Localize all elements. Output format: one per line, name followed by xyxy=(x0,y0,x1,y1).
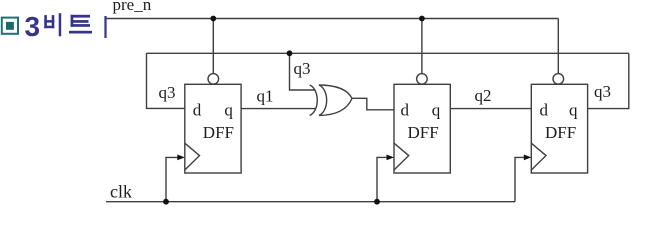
wire pre_n horizontal xyxy=(106,18,558,20)
dff U2 clock triangle xyxy=(394,143,409,170)
junction dot clk / U2 branch xyxy=(374,199,380,205)
svg-text:clk: clk xyxy=(110,182,132,202)
wire q3 left leg into U1 d input xyxy=(147,53,185,108)
text cursor bar xyxy=(104,16,106,38)
wire clk branch up to U1 clock xyxy=(166,157,179,201)
dff U2 preset bubble xyxy=(417,74,428,85)
svg-text:d: d xyxy=(401,100,410,119)
svg-text:q3: q3 xyxy=(294,59,311,78)
wire clk right leg up to U3 clock xyxy=(515,157,525,201)
svg-text:pre_n: pre_n xyxy=(113,0,152,14)
title hangul TEU xyxy=(69,15,92,34)
svg-text:q: q xyxy=(569,100,578,119)
junction dot q3 / XOR branch xyxy=(287,50,293,56)
wire q3 branch down to XOR upper input xyxy=(290,53,316,90)
arrowhead clk into U3 xyxy=(524,155,532,161)
svg-text:q1: q1 xyxy=(257,86,274,105)
svg-text:d: d xyxy=(540,100,549,119)
dff U1 clock triangle xyxy=(185,143,200,170)
wire pre_n drop to U1 preset bubble xyxy=(212,19,214,74)
svg-text:d: d xyxy=(193,100,202,119)
svg-text:3: 3 xyxy=(25,11,41,42)
arrowhead clk into U2 xyxy=(387,155,395,161)
title icon bullet square xyxy=(2,18,18,34)
wire q2: U2 q output to U3 d input xyxy=(450,108,531,110)
junction dot pre_n / U2 preset xyxy=(419,16,425,22)
dff U3 box xyxy=(531,84,587,173)
junction dot pre_n / U1 preset xyxy=(210,16,216,22)
wire pre_n drop to U2 preset bubble xyxy=(421,19,423,74)
wire q1: U1 q output to XOR lower input xyxy=(241,108,315,110)
xor gate G1 body xyxy=(319,85,352,115)
svg-text:q2: q2 xyxy=(475,86,492,105)
wire clk horizontal xyxy=(106,201,515,203)
wire pre_n right drop to U3 preset bubble xyxy=(557,19,559,74)
xor gate G1 input arc xyxy=(310,85,318,116)
wire q3 feedback bus horizontal xyxy=(147,52,629,54)
wire XOR output to U2 d input xyxy=(352,98,394,110)
svg-text:q: q xyxy=(224,100,233,119)
junction dot clk / U1 branch xyxy=(163,199,169,205)
dff U2 box xyxy=(394,84,450,173)
dff U3 preset bubble xyxy=(553,74,564,85)
wire clk branch up to U2 clock xyxy=(377,157,388,201)
svg-text:q: q xyxy=(432,100,441,119)
wire q3 right leg from U3 q output xyxy=(588,53,629,108)
dff U1 box xyxy=(185,84,241,173)
svg-text:DFF: DFF xyxy=(545,123,576,142)
arrowhead clk into U1 xyxy=(177,155,185,161)
dff U1 preset bubble xyxy=(208,74,219,85)
svg-text:q3: q3 xyxy=(159,83,176,102)
title hangul BI xyxy=(44,13,61,36)
svg-text:DFF: DFF xyxy=(408,123,439,142)
svg-text:DFF: DFF xyxy=(203,123,234,142)
dff U3 clock triangle xyxy=(531,143,546,170)
svg-text:q3: q3 xyxy=(594,82,611,101)
